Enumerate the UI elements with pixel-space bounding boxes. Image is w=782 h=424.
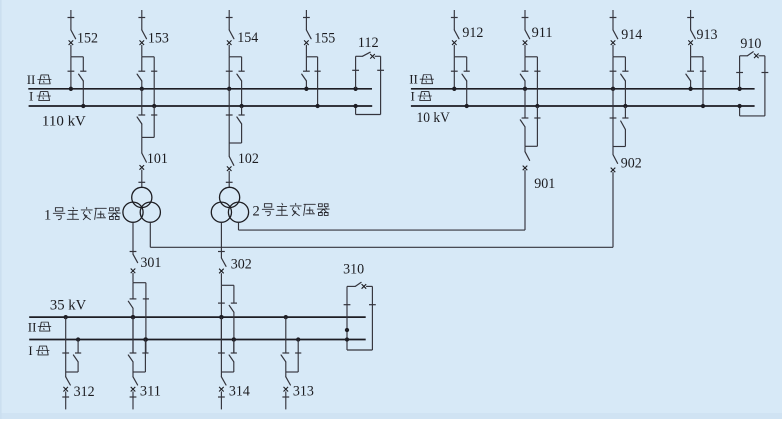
svg-text:913: 913 <box>697 27 718 43</box>
wire joining branches of bay 102 <box>229 142 241 144</box>
wire from breaker 154 to bus disconnectors <box>228 45 230 57</box>
bus I disconnector of transformer bay 101 (closed) <box>153 106 155 137</box>
node: tie 310 on bus I <box>345 337 349 341</box>
svg-text:313: 313 <box>293 383 314 399</box>
node: bay 153 on bus I <box>152 104 156 108</box>
svg-text:I: I <box>29 88 33 103</box>
bus II disconnector of bay 911 (open) <box>522 70 529 72</box>
node: tie 112 on bus I <box>353 104 357 108</box>
circuit breaker 102 <box>228 143 230 156</box>
disconnector (bus II side) of tie 910 <box>736 72 743 74</box>
bus I (35 kV) <box>29 339 366 341</box>
node: bay 313 on bus II <box>284 315 288 319</box>
svg-text:10 kV: 10 kV <box>417 110 451 126</box>
wire joining branches of bay 301 <box>133 282 146 284</box>
circuit breaker 312 <box>65 372 67 377</box>
bus II disconnector of transformer bay 102 (closed) <box>228 89 230 143</box>
wire from breaker 155 to bus disconnectors <box>305 45 307 57</box>
bus II disconnector of bay 913 (open) <box>687 70 694 72</box>
circuit breaker 155 <box>304 40 309 45</box>
node: bay 913 on bus I <box>701 104 705 108</box>
wire T2 10kV winding down to 901 link <box>238 222 240 230</box>
svg-text:I: I <box>411 88 415 103</box>
node: bay 312 on bus I <box>76 337 80 341</box>
node: bay 911 on bus I <box>535 104 539 108</box>
wire from breaker 153 to bus disconnectors <box>141 45 143 57</box>
node: bay 914 on bus II <box>611 87 615 91</box>
node: bay 312 on bus II <box>64 315 68 319</box>
svg-text:2: 2 <box>253 204 260 220</box>
line disconnector of bay 311 and outgoing feeder <box>132 391 134 397</box>
wire T1 10kV winding down to 902 link <box>149 222 151 247</box>
feeder line 152 (incoming overhead line) <box>70 10 72 18</box>
bus II disconnector of bay 301 (open) <box>132 283 134 299</box>
node: bay 154 on bus II <box>227 87 231 91</box>
node: bay 301 on bus II <box>131 315 135 319</box>
svg-text:901: 901 <box>534 176 555 192</box>
node: bay 311 on bus I <box>143 337 147 341</box>
disconnector at transformer T2 primary <box>228 171 230 187</box>
wire joining branches of bay 302 <box>221 284 234 286</box>
wire joining branches of bay 902 <box>613 146 625 148</box>
node: bay 152 on bus I <box>81 104 85 108</box>
svg-text:102: 102 <box>238 151 259 167</box>
bus I disconnector of bay 155 (closed) <box>315 70 321 72</box>
node: bay 301 on bus I <box>144 337 148 341</box>
wire from breaker 914 to bus disconnectors <box>612 45 614 57</box>
node: bay 302 on bus I <box>232 337 236 341</box>
node: bay 912 on bus I <box>465 104 469 108</box>
wire link from 901 down/left to transformer T2 10kV winding <box>524 170 526 230</box>
bus II disconnector of bay 302 (closed) <box>220 285 222 353</box>
svg-text:152: 152 <box>77 30 98 46</box>
svg-text:110 kV: 110 kV <box>42 114 86 130</box>
svg-text:112: 112 <box>358 35 379 51</box>
wire joining branches of bay 901 <box>525 145 537 147</box>
bus I disconnector of bay 154 (open) <box>239 70 245 72</box>
bus I disconnector of bay 312 (open) <box>75 352 81 354</box>
feeder line 911 (incoming overhead line) <box>524 10 526 18</box>
feeder line 912 (incoming overhead line) <box>453 10 455 18</box>
wire joining bus branches of bay 313 <box>286 371 298 373</box>
svg-text:312: 312 <box>74 384 95 400</box>
disconnector (bus I side) of tie 910 <box>764 56 766 116</box>
node: bay 314 on bus II <box>219 315 223 319</box>
circuit breaker 911 <box>523 40 528 45</box>
bus II disconnector of bay 912 (closed) <box>451 70 458 72</box>
line disconnector of bay 152 <box>68 17 75 19</box>
line disconnector of bay 313 and outgoing feeder <box>285 391 287 397</box>
node: bay 152 on bus II <box>69 87 73 91</box>
svg-text:II: II <box>28 320 37 335</box>
disconnector at transformer T1 primary <box>141 170 143 188</box>
bus II (10 kV) <box>411 88 755 90</box>
bus II disconnector of bay 153 (open) <box>138 70 145 72</box>
bus I disconnector of bay 311 (closed) <box>142 352 148 354</box>
bus I disconnector of bay 902 (open) <box>624 106 626 118</box>
bottom tie wire of 112 <box>356 114 381 116</box>
bus II disconnector of bay 914 (closed) <box>610 70 617 72</box>
bus I (110 kV) <box>29 105 373 107</box>
node: bay 913 on bus II <box>688 87 692 91</box>
wire link from 902 down/left to transformer T1 10kV winding <box>612 172 614 247</box>
svg-text:912: 912 <box>462 25 483 41</box>
node: bay 302 on bus II <box>219 315 223 319</box>
bus II (110 kV) <box>28 88 372 90</box>
svg-text:I: I <box>28 343 32 358</box>
bus II (35 kV) <box>29 316 366 318</box>
bus I disconnector of bay 302 (open) <box>233 285 235 303</box>
bus II disconnector of bay 311 (open) <box>130 352 137 354</box>
bus tie bay 910 : wire from bus II up <box>737 87 741 91</box>
bus tie bay 310 : left wire <box>346 286 348 350</box>
bus II disconnector of bay 312 (closed) <box>62 352 69 354</box>
top tie wire <box>347 285 355 287</box>
line disconnector of bay 155 <box>303 17 310 19</box>
node: bay 154 on bus I <box>239 104 243 108</box>
wire joining branches of bay 101 <box>142 136 154 138</box>
svg-text:301: 301 <box>140 255 161 271</box>
circuit breaker 152 <box>69 40 74 45</box>
svg-text:314: 314 <box>229 383 250 399</box>
bus I disconnector of transformer bay 102 (open) <box>241 106 243 115</box>
svg-text:II: II <box>409 72 418 87</box>
circuit breaker 910 <box>747 52 753 56</box>
svg-text:302: 302 <box>231 257 252 273</box>
feeder line 914 (incoming overhead line) <box>612 10 614 18</box>
svg-text:310: 310 <box>343 262 364 278</box>
line disconnector of bay 912 <box>451 17 458 19</box>
svg-text:154: 154 <box>237 30 258 46</box>
circuit breaker 101 <box>141 137 143 153</box>
svg-text:II: II <box>27 72 36 87</box>
wire T1 35kV winding down <box>132 222 134 251</box>
circuit breaker 912 <box>452 40 457 45</box>
bus II disconnector of bay 314 (closed) <box>218 352 225 354</box>
line disconnector of bay 154 <box>226 17 233 19</box>
disconnector (bus II side) of tie 112 <box>352 69 359 71</box>
line disconnector of bay 153 <box>138 17 145 19</box>
circuit breaker 901 <box>524 146 526 151</box>
circuit breaker 314 <box>220 372 222 377</box>
line disconnector of bay 911 <box>522 17 529 19</box>
svg-text:914: 914 <box>621 27 642 43</box>
bus II disconnector of bay 155 (open) <box>303 70 310 72</box>
feeder line 913 (incoming overhead line) <box>690 10 692 18</box>
svg-text:1: 1 <box>44 208 51 224</box>
bus I disconnector of bay 901 (closed) <box>536 106 538 146</box>
bus I disconnector of bay 912 (open) <box>464 70 470 72</box>
feeder line 154 (incoming overhead line) <box>228 10 230 18</box>
circuit breaker 902 <box>612 147 614 155</box>
line disconnector of bay 312 and outgoing feeder <box>65 391 67 397</box>
top tie wire <box>356 55 363 57</box>
bus II disconnector of bay 901 (open) <box>524 89 526 118</box>
bus tie bay 112 : wire from bus II up <box>353 87 357 91</box>
disconnector (bus I side) of tie 112 <box>380 56 382 114</box>
circuit breaker 311 <box>132 372 134 377</box>
node: bay 155 on bus II <box>304 87 308 91</box>
node: bay 313 on bus I <box>296 337 300 341</box>
bus I (10 kV) <box>411 105 755 107</box>
wire T2 35kV winding down <box>220 222 222 251</box>
feeder line 153 (incoming overhead line) <box>141 10 143 18</box>
bus I disconnector of bay 913 (closed) <box>700 70 706 72</box>
top tie wire <box>740 55 748 57</box>
bottom tie wire of 310 <box>347 349 372 351</box>
circuit breaker 302 <box>220 252 222 259</box>
node: bay 912 on bus II <box>452 87 456 91</box>
wire from breaker 911 to bus disconnectors <box>524 45 526 57</box>
circuit breaker 112 <box>362 52 370 56</box>
svg-text:101: 101 <box>147 151 168 167</box>
bus II disconnector of bay 313 (open) <box>282 352 289 354</box>
bottom tie wire of 910 <box>740 115 765 117</box>
bus II disconnector of bay 902 (closed) <box>612 89 614 147</box>
node: tie 910 on bus I <box>737 104 741 108</box>
bus II disconnector of bay 154 (closed) <box>226 70 233 72</box>
node: bay 311 on bus II <box>131 315 135 319</box>
node: bay 911 on bus II <box>523 87 527 91</box>
bus I disconnector of bay 153 (closed) <box>151 70 157 72</box>
transformer T1 (1号主变压器) three-winding <box>132 187 152 207</box>
line disconnector of bay 914 <box>610 17 617 19</box>
svg-text:153: 153 <box>148 30 169 46</box>
bus I disconnector of bay 914 (open) <box>622 70 628 72</box>
bus I disconnector of bay 152 (open) <box>80 70 86 72</box>
circuit breaker 153 <box>140 40 145 45</box>
node: bay 153 on bus II <box>140 87 144 91</box>
disconnector (left) of tie 310 <box>344 304 351 306</box>
circuit breaker 913 <box>688 40 693 45</box>
bus I disconnector of bay 911 (closed) <box>534 70 540 72</box>
bus I disconnector of bay 313 (closed) <box>295 352 301 354</box>
transformer T2 (2号主变压器) three-winding <box>220 187 240 207</box>
line disconnector of bay 314 and outgoing feeder <box>220 391 222 397</box>
circuit breaker 313 <box>285 372 287 377</box>
svg-text:155: 155 <box>314 31 335 47</box>
circuit breaker 914 <box>611 40 616 45</box>
wire joining bus branches of bay 312 <box>66 371 78 373</box>
wire from breaker 913 to bus disconnectors <box>690 45 692 57</box>
disconnector at transformer T2 secondary <box>218 251 225 253</box>
node: bay 914 on bus I <box>623 104 627 108</box>
bus II disconnector of bay 152 (closed) <box>68 70 75 72</box>
svg-text:910: 910 <box>740 36 761 52</box>
svg-text:35 kV: 35 kV <box>50 297 86 313</box>
node: bay 155 on bus I <box>315 104 319 108</box>
line disconnector of bay 913 <box>687 17 694 19</box>
circuit breaker 310 <box>355 282 361 286</box>
feeder line 155 (incoming overhead line) <box>305 10 307 18</box>
bus I disconnector of bay 301 (closed) <box>145 283 147 353</box>
disconnector (right) of tie 310 <box>371 286 373 350</box>
disconnector at transformer T1 secondary <box>130 251 137 253</box>
wire joining bus branches of bay 314 <box>221 371 233 373</box>
svg-text:311: 311 <box>140 383 161 399</box>
circuit breaker 154 <box>227 40 232 45</box>
wire from breaker 152 to bus disconnectors <box>70 45 72 57</box>
bus II disconnector of transformer bay 101 (open) <box>141 89 143 115</box>
wire joining bus branches of bay 311 <box>133 371 145 373</box>
circuit breaker 301 <box>132 252 134 255</box>
wire from breaker 912 to bus disconnectors <box>453 45 455 57</box>
junction dot (printed between buses) of tie 310 <box>345 328 349 332</box>
svg-text:902: 902 <box>621 156 642 172</box>
node: bay 314 on bus I <box>232 337 236 341</box>
bus I disconnector of bay 314 (open) <box>231 352 237 354</box>
svg-text:911: 911 <box>532 25 553 41</box>
